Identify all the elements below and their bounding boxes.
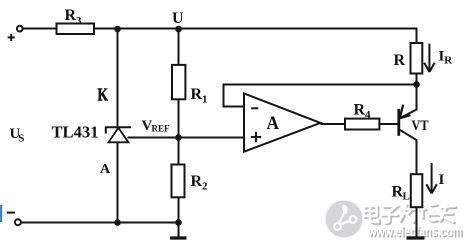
wire feedback: vertical	[223, 85, 225, 108]
resistor R	[411, 43, 423, 74]
ground below R2	[170, 236, 187, 239]
wire R2 to bottom rail and ground stem	[178, 197, 180, 237]
node U dot	[175, 26, 182, 33]
svg-text:4: 4	[365, 109, 371, 121]
current arrow IR	[424, 44, 434, 72]
current arrow I	[426, 163, 436, 194]
op-amp A triangle	[244, 93, 320, 151]
node VREF dot	[175, 134, 182, 141]
wire R1 to VREF	[178, 99, 180, 164]
label IR	[439, 48, 454, 66]
plus sign	[8, 34, 15, 41]
minus sign	[7, 212, 15, 214]
node dot junction R3/K	[114, 26, 121, 33]
wire corner down to R	[416, 28, 418, 44]
wire R4 to base	[379, 123, 399, 125]
transistor emitter arrow (PNP, pointing to bar)	[400, 105, 411, 119]
terminal - (circle)	[15, 219, 21, 225]
wire feedback: top horizontal	[223, 84, 417, 86]
label R4	[354, 102, 372, 122]
label VREF	[142, 118, 171, 134]
resistor R4	[345, 119, 379, 130]
svg-text:U: U	[172, 10, 184, 27]
blue scan artifact	[0, 205, 2, 222]
resistor R2	[172, 165, 185, 198]
wire op-amp output to R4	[320, 123, 345, 125]
svg-text:1: 1	[202, 94, 208, 106]
label R3	[65, 7, 83, 27]
label R2	[191, 173, 209, 193]
wire RL to ground	[416, 207, 418, 237]
TL431 cathode bar	[106, 127, 131, 133]
wire node to emitter	[400, 85, 417, 119]
label R1	[191, 86, 208, 106]
svg-text:A: A	[100, 162, 111, 177]
label RL	[392, 184, 410, 203]
wire U to R1	[178, 29, 180, 65]
wire K line lower	[117, 142, 119, 222]
svg-text:A: A	[267, 113, 280, 134]
wire TL431 ref to op-amp + input	[128, 137, 245, 139]
svg-text:K: K	[98, 85, 109, 105]
svg-text:R: R	[65, 7, 77, 24]
svg-text:TL431: TL431	[52, 123, 99, 142]
wire collector to RL	[400, 130, 417, 174]
label US	[10, 126, 25, 145]
svg-text:R: R	[191, 86, 203, 103]
op-amp plus symbol	[251, 132, 261, 142]
op-amp label A	[267, 113, 280, 134]
svg-text:L: L	[403, 191, 410, 203]
wire R3 to top-right corner	[94, 28, 417, 30]
svg-text:3: 3	[76, 15, 82, 27]
op-amp minus symbol	[251, 107, 258, 109]
svg-text:R: R	[354, 102, 366, 119]
node dot bottom rail / R2	[175, 219, 182, 226]
TL431 triangle	[109, 128, 129, 143]
svg-text:R: R	[191, 173, 203, 190]
watermark logo circle	[326, 201, 363, 238]
wire feedback: minus input left	[224, 106, 245, 108]
wire bottom rail	[21, 222, 179, 224]
resistor R1	[172, 65, 185, 99]
svg-text:R: R	[394, 52, 406, 69]
svg-text:2: 2	[202, 181, 208, 193]
resistor RL	[411, 174, 423, 207]
node dot bottom rail / TL431 anode	[114, 219, 121, 226]
svg-text:REF: REF	[152, 124, 171, 134]
transistor VT base bar	[397, 109, 400, 136]
wire + terminal to R3	[23, 28, 57, 30]
node dot feedback/R/emitter	[413, 81, 420, 88]
svg-text:R: R	[444, 54, 453, 66]
resistor R3	[57, 24, 95, 35]
svg-text:VT: VT	[412, 118, 429, 134]
terminal + (circle)	[17, 26, 23, 32]
wire R to node	[416, 74, 418, 86]
ground below RL	[407, 236, 425, 239]
svg-text:S: S	[18, 133, 24, 145]
wire K line upper	[117, 29, 119, 127]
svg-text:I: I	[439, 172, 445, 188]
watermark CJK text 电子发烧友 (approximated strokes, white with gray shadow)	[364, 203, 458, 224]
